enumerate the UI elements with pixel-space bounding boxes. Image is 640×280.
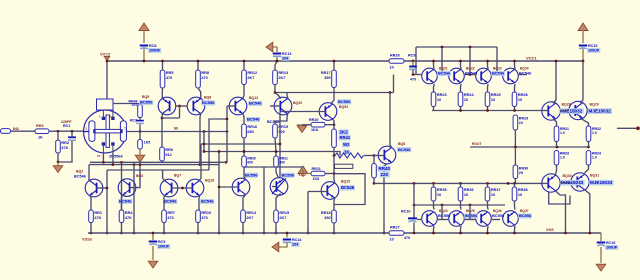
wire Q7 emitter	[163, 195, 165, 210]
junction	[120, 232, 123, 235]
junction	[274, 91, 277, 94]
resistor RR6	[160, 147, 173, 161]
junction	[163, 232, 166, 235]
svg-text:1.0: 1.0	[592, 131, 597, 135]
svg-text:BC556: BC556	[465, 213, 478, 218]
wire RR7 bottom	[163, 223, 165, 234]
svg-text:BC556: BC556	[438, 213, 451, 218]
resistor RR14	[241, 210, 257, 223]
svg-text:BC546: BC546	[341, 185, 355, 190]
svg-text:10: 10	[491, 98, 495, 102]
junction	[636, 127, 640, 131]
label RR33	[560, 152, 569, 156]
transistor Q17 BC556	[232, 178, 250, 196]
svg-text:RR30: RR30	[519, 167, 528, 171]
svg-text:BQ16: BQ16	[205, 179, 214, 183]
label MJE15033 b	[589, 180, 613, 186]
svg-text:BQ12: BQ12	[249, 96, 258, 100]
label 470 RC9	[410, 78, 416, 82]
junction	[181, 187, 184, 190]
label BQ28	[562, 103, 571, 107]
wire RC16 stem	[600, 233, 602, 241]
wire RR29 bottom	[514, 130, 516, 147]
wire W2 to Q base	[364, 155, 374, 157]
label BQ5	[142, 95, 149, 99]
svg-text:1K8: 1K8	[311, 128, 318, 132]
wire RR25 bottom	[487, 107, 489, 111]
label BC556 b1	[464, 213, 478, 218]
wire RR37 bottom wire	[487, 201, 490, 210]
wire RC3 bottom	[139, 124, 141, 131]
resistor RR34	[586, 151, 591, 166]
svg-text:RR20: RR20	[309, 118, 318, 122]
svg-text:470: 470	[410, 78, 416, 82]
svg-text:BQ52: BQ52	[339, 105, 348, 109]
svg-text:VCC3: VCC3	[100, 53, 110, 57]
junction	[486, 182, 489, 185]
label BQ8	[204, 96, 211, 100]
svg-text:BC546: BC546	[492, 71, 505, 76]
transistor Q5 BC556	[158, 97, 176, 115]
wire RR8 top	[197, 61, 199, 70]
resistor RR20	[311, 122, 325, 127]
junction	[71, 130, 74, 133]
wire x414 lower	[413, 223, 415, 234]
label bq name 1	[466, 209, 475, 213]
svg-text:500: 500	[279, 160, 285, 164]
wire RR5 top	[162, 61, 164, 70]
wire RC1 bottom	[58, 141, 72, 162]
wire x334 lower	[333, 156, 335, 174]
wire Q8 emitter	[384, 164, 387, 233]
label BQ52	[339, 105, 348, 109]
wire Q8 base	[374, 155, 384, 157]
wire signal	[127, 131, 227, 133]
resistor RR36 bottom	[458, 187, 473, 201]
wire RC15 to arrow	[582, 32, 584, 43]
transistor Q2 BC546	[85, 179, 103, 197]
svg-text:RR40: RR40	[379, 166, 391, 171]
svg-text:912: 912	[165, 153, 171, 157]
wire RR14 bottom	[242, 223, 244, 234]
pin label 1	[99, 115, 101, 119]
wire RR37 top	[487, 183, 489, 187]
svg-text:47K: 47K	[61, 146, 68, 150]
transistor QM2 BC546 top mirror	[449, 68, 465, 84]
svg-text:BQ7: BQ7	[174, 174, 181, 178]
resistor RR12	[242, 70, 257, 85]
junction	[275, 150, 278, 153]
capacitor RC8	[140, 44, 162, 53]
svg-text:1.0: 1.0	[592, 156, 597, 160]
junction	[469, 73, 472, 76]
wire diode tie	[179, 106, 181, 118]
wire VSS rail right	[404, 232, 601, 234]
wire mirror base seg3	[492, 74, 502, 76]
svg-text:2K2: 2K2	[340, 130, 349, 135]
power arrow VCC1 up	[578, 23, 588, 34]
svg-text:BC546: BC546	[438, 71, 451, 76]
wire RC8 stem	[143, 48, 145, 61]
junction	[226, 130, 229, 133]
svg-text:2K7: 2K7	[279, 216, 286, 220]
junction	[57, 161, 60, 164]
wire VAS base	[280, 111, 325, 113]
junction	[413, 182, 416, 185]
wire bm base seg2	[465, 219, 475, 221]
transistor Q6 BC556	[187, 97, 205, 115]
wire RR12 to Q12	[243, 85, 244, 99]
svg-text:104: 104	[282, 56, 289, 60]
wire RR17 top	[333, 61, 335, 70]
wire RR23 bottom	[433, 107, 435, 111]
label 1.0d	[592, 156, 597, 160]
svg-text:2K7: 2K7	[246, 216, 253, 220]
svg-text:BQ8: BQ8	[398, 142, 405, 146]
resistor RR42 box	[335, 164, 353, 168]
junction	[432, 182, 435, 185]
svg-text:VSS: VSS	[546, 228, 554, 232]
wire RR41 bottom	[333, 148, 335, 156]
label bq name 3	[520, 209, 529, 213]
junction	[333, 232, 336, 235]
svg-text:1K8: 1K8	[313, 177, 320, 181]
transistor Q22 BC556	[270, 178, 288, 196]
label BQ31	[590, 174, 599, 178]
wire RC9 bottom stub	[412, 70, 414, 75]
dual JFET U1 2N5566	[84, 110, 127, 153]
label BC556 VAS	[337, 99, 351, 104]
wire x121 drop	[121, 162, 123, 210]
junction	[514, 146, 517, 149]
svg-text:470: 470	[404, 236, 410, 240]
resistor RR40	[372, 164, 377, 179]
label RR21	[247, 157, 256, 161]
wire base tie	[176, 105, 187, 107]
wire QB1 emitter	[433, 226, 436, 233]
resistor RR33	[554, 151, 559, 166]
wire QB3 emitter	[487, 226, 490, 233]
wire RR4 bottom	[121, 223, 123, 234]
resistor RR19	[273, 124, 288, 138]
power arrow down mid	[135, 155, 145, 162]
junction	[459, 182, 462, 185]
label 1K8	[311, 128, 318, 132]
svg-text:RC14: RC14	[292, 238, 302, 242]
label 470	[132, 103, 138, 107]
svg-text:BC546: BC546	[398, 147, 411, 152]
svg-text:22: 22	[519, 121, 523, 125]
wire VAS collector	[333, 119, 334, 129]
junction	[178, 105, 181, 108]
wire OUT stub	[617, 127, 638, 129]
junction	[513, 182, 516, 185]
svg-text:BQ29: BQ29	[590, 103, 599, 107]
wire RR15 bottom	[275, 223, 277, 234]
wire Q30 base	[543, 182, 549, 184]
svg-text:10: 10	[390, 65, 394, 69]
wire RR40 bottom	[373, 178, 375, 183]
wire gnd stub	[57, 162, 59, 166]
wire wiper path	[334, 174, 365, 205]
svg-text:RR17: RR17	[321, 71, 331, 75]
wire RR8 to Q6	[198, 88, 201, 99]
wire bm base riser 1	[441, 205, 443, 220]
label BQ7	[174, 174, 181, 178]
wire Q17 collector	[244, 167, 246, 180]
junction	[441, 46, 444, 49]
wire RR30 bottom	[514, 179, 516, 184]
wire QM1 collector	[433, 61, 436, 69]
resistor RR7	[162, 210, 175, 223]
label BC546 Q2	[74, 175, 86, 179]
wire RR40 top	[373, 156, 375, 164]
label 220	[380, 172, 390, 178]
label RR20	[309, 118, 318, 122]
resistor RR18	[321, 210, 336, 223]
wire x264 drop	[263, 167, 265, 233]
wire RR34 bottom	[585, 165, 589, 173]
label 22	[519, 121, 523, 125]
junction	[564, 232, 567, 235]
resistor RR32	[586, 126, 591, 142]
resistor RR25	[485, 92, 500, 107]
power marker VCC3	[104, 57, 110, 61]
transistor Q30 MJE15033	[542, 174, 560, 192]
transistor Q31 MJE15033	[571, 173, 589, 191]
junction	[413, 232, 416, 235]
resistor RR15	[274, 210, 289, 223]
junction	[161, 60, 164, 63]
label 500	[279, 160, 285, 164]
wire line B	[374, 182, 543, 184]
ground RC5	[148, 261, 158, 268]
wire RR1 bottom	[90, 223, 92, 234]
transistor Q7 BC546	[160, 179, 178, 197]
svg-text:BQ5: BQ5	[142, 95, 149, 99]
transistor QB4 BC556 bottom mirror	[503, 211, 519, 227]
wire Q31 collector	[585, 190, 590, 233]
label BC556 b0	[438, 213, 451, 218]
wire RR13 to Q20	[275, 85, 281, 99]
wire Q12 emitter	[243, 114, 244, 125]
label BC546 Q12b	[246, 117, 260, 122]
svg-text:VSS3: VSS3	[82, 238, 92, 242]
junction	[276, 60, 279, 63]
svg-text:RR14: RR14	[246, 211, 257, 215]
svg-text:MJE15032: MJE15032	[589, 109, 612, 114]
junction	[90, 232, 93, 235]
label BC546 m2	[491, 71, 505, 76]
svg-text:ROUT: ROUT	[472, 142, 481, 146]
wire RR2 bottom	[57, 153, 59, 162]
label RR29	[519, 117, 528, 121]
wire base rail right drop	[496, 47, 498, 75]
wire RR22 top	[275, 152, 277, 157]
svg-text:RC9: RC9	[408, 54, 415, 58]
wire RR36 top	[460, 183, 462, 187]
junction	[133, 163, 136, 166]
svg-text:RR15: RR15	[279, 211, 289, 215]
junction	[106, 60, 109, 63]
svg-text:BC546: BC546	[74, 175, 86, 179]
wire Q3 base	[130, 165, 140, 188]
label BC556 Q6	[201, 100, 215, 105]
resistor RR38 bottom	[512, 187, 527, 201]
wire RC16 stub	[600, 247, 602, 263]
capacitor RC13	[273, 52, 292, 61]
transistor Q8 BC546	[378, 146, 396, 164]
wire bm base seg0	[417, 219, 421, 221]
svg-text:470: 470	[201, 76, 207, 80]
wire RC14 elbow	[279, 243, 287, 247]
wire input node	[49, 130, 84, 132]
svg-text:BC556: BC556	[492, 213, 505, 218]
junction	[139, 130, 142, 133]
svg-text:25: 25	[519, 171, 523, 175]
svg-text:RC13: RC13	[282, 52, 291, 56]
wire QM3 collector	[487, 61, 490, 69]
wire RR21h to node	[325, 173, 334, 175]
svg-text:RC8: RC8	[149, 44, 156, 48]
svg-text:100NF: 100NF	[149, 48, 161, 52]
resistor RR41	[332, 129, 337, 148]
label BQ8b	[398, 142, 405, 146]
resistor RR17	[321, 70, 336, 88]
label BC556 b2	[492, 213, 505, 218]
resistor RR10	[196, 210, 211, 223]
wire arrow stem	[303, 170, 311, 174]
wire Q20 emitter	[275, 114, 288, 125]
port IN2 connector	[1, 129, 11, 134]
label 1K8b	[313, 177, 320, 181]
svg-text:RR37: RR37	[491, 188, 501, 192]
junction	[243, 150, 246, 153]
transistor QM4 BC546 top mirror	[503, 68, 519, 84]
net label VCC1	[526, 56, 537, 61]
wire Q8 collector	[390, 93, 392, 148]
svg-text:RR29: RR29	[519, 117, 528, 121]
svg-text:BQ20: BQ20	[293, 101, 302, 105]
wire QM2 collector	[460, 61, 463, 69]
junction	[432, 60, 435, 63]
junction	[383, 232, 386, 235]
svg-text:BC546: BC546	[247, 117, 260, 122]
label MJE15033 a	[560, 180, 584, 186]
transistor QB2 BC556 bottom mirror	[449, 211, 465, 227]
resistor RR5	[160, 70, 173, 88]
wire output hook	[549, 192, 570, 204]
svg-text:BC546: BC546	[201, 199, 214, 204]
label RR32	[592, 127, 601, 131]
wire RC3 top	[139, 118, 141, 120]
wire RC13 elbow	[272, 47, 277, 52]
wire RR20 to VAS	[325, 124, 334, 126]
wire RR5 to Q5	[161, 88, 163, 99]
wire RR36 bottom	[243, 138, 245, 152]
wire Q16 emitter	[198, 196, 200, 211]
wire Q22 base	[272, 186, 276, 188]
label BC546 Q12	[248, 101, 262, 106]
resistor RR47	[138, 140, 143, 150]
power arrow RC13	[266, 42, 273, 52]
wire RC14 stem	[286, 233, 288, 238]
label BQ16	[205, 179, 214, 183]
wire Q2 collector	[88, 172, 90, 182]
label BC546 m3	[519, 71, 532, 76]
svg-text:BC556: BC556	[202, 100, 215, 105]
svg-text:RC16: RC16	[606, 241, 615, 245]
svg-text:RC3: RC3	[130, 119, 137, 123]
ground mid	[297, 126, 307, 133]
wire Q10 emitter	[333, 198, 336, 210]
junction	[243, 150, 246, 153]
junction	[555, 60, 558, 63]
junction	[226, 118, 229, 121]
transistor Q16 BC546	[186, 179, 204, 197]
wire x219 drop	[218, 152, 220, 234]
svg-text:1K5: 1K5	[144, 141, 150, 145]
label 600	[247, 160, 253, 164]
svg-text:BC546: BC546	[249, 101, 262, 106]
wire line1	[90, 161, 226, 163]
wire drain feed	[106, 61, 108, 99]
junction	[513, 60, 516, 63]
label BC546 Q10	[340, 185, 355, 190]
junction	[203, 150, 206, 153]
wire QM4 emitter	[514, 84, 517, 92]
svg-text:470: 470	[132, 103, 138, 107]
label MJE15032 a	[559, 108, 583, 114]
junction	[459, 232, 462, 235]
wire x414 upper	[413, 183, 415, 217]
label BQ20	[293, 101, 302, 105]
label W2	[342, 142, 350, 148]
wire RR2 top	[57, 131, 59, 140]
ground input	[53, 166, 63, 173]
junction	[441, 204, 444, 207]
svg-text:BC556: BC556	[140, 100, 153, 105]
resistor RR44	[138, 105, 143, 118]
label BC556 Q17	[244, 172, 258, 177]
label RR31	[560, 127, 569, 131]
transistor Q10 BC546	[321, 182, 339, 200]
transistor Q20 BC546	[274, 97, 292, 115]
wire RR38 top	[514, 183, 516, 187]
label BC556 Q5	[139, 100, 153, 105]
wire box to RR44	[113, 104, 140, 105]
svg-text:RR2: RR2	[61, 141, 69, 145]
svg-text:RR35: RR35	[437, 188, 447, 192]
transistor QB3 BC556 bottom mirror	[476, 211, 492, 227]
svg-text:2N5566: 2N5566	[109, 154, 123, 159]
wire RR24 bottom	[460, 107, 462, 111]
power arrow VCC3 up	[139, 23, 149, 34]
capacitor RC5	[149, 240, 171, 249]
wire x162 stub	[162, 170, 164, 178]
svg-text:680: 680	[247, 130, 253, 134]
svg-text:1K: 1K	[344, 150, 349, 155]
wire bottom mirror base line	[414, 204, 505, 206]
wire RR31 bottom	[556, 142, 558, 148]
label BQ21 name	[466, 67, 475, 71]
junction	[279, 143, 282, 146]
junction	[286, 232, 289, 235]
junction	[469, 204, 472, 207]
wire input	[11, 130, 36, 132]
transistor Q9 BC556	[319, 103, 337, 121]
wire Q6 collector	[199, 114, 202, 165]
